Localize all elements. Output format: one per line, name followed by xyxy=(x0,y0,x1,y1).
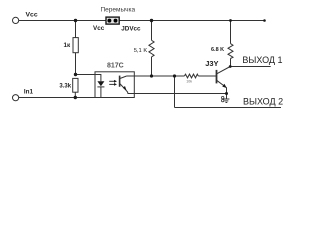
transistor emitter diagonal with arrow xyxy=(217,80,227,87)
wire output 1 xyxy=(230,66,271,68)
junction node B xyxy=(74,73,77,76)
wire 10k to base xyxy=(198,75,216,77)
svg-text:1к: 1к xyxy=(64,42,72,49)
svg-text:3.3k: 3.3k xyxy=(59,83,71,89)
wire node F vertical to bottom rail xyxy=(174,76,176,108)
jumper pin dot 1 xyxy=(107,18,112,23)
wire 1k bottom lead xyxy=(75,53,77,75)
svg-text:Vcc: Vcc xyxy=(26,12,38,19)
svg-text:ВЫХОД 2: ВЫХОД 2 xyxy=(243,96,283,106)
jumper block xyxy=(106,17,119,24)
svg-text:817C: 817C xyxy=(107,63,124,70)
phototransistor base bar xyxy=(119,76,121,87)
wire top rail Vcc xyxy=(19,20,265,22)
wire emitter to ground xyxy=(226,87,228,98)
wire In1 xyxy=(19,97,95,99)
LED cathode lead to box bottom xyxy=(100,87,102,98)
resistor R1 1k body xyxy=(73,38,78,53)
svg-text:10k: 10k xyxy=(186,80,192,84)
svg-text:ВЫХОД 1: ВЫХОД 1 xyxy=(242,55,282,65)
connector circles xyxy=(222,96,224,98)
svg-text:6.8 K: 6.8 K xyxy=(211,47,224,53)
light arrow 2 xyxy=(109,83,114,85)
LED cathode bar xyxy=(97,86,104,88)
terminal In1 circle xyxy=(13,95,19,101)
svg-text:Vcc: Vcc xyxy=(93,25,105,32)
junction node C xyxy=(74,96,77,99)
wire 3.3k bottom lead xyxy=(74,92,76,97)
junction node F xyxy=(173,74,176,77)
wire optocoupler emitter to transistor emitter xyxy=(128,93,227,95)
junction node A xyxy=(74,19,77,22)
junction emitter node xyxy=(225,92,228,95)
light arrow 1 xyxy=(109,80,114,82)
resistor R2 3.3k body xyxy=(73,78,78,92)
resistor R4 10k zigzag xyxy=(184,74,198,78)
phototransistor emitter diagonal xyxy=(120,83,127,90)
wire 1k top lead xyxy=(75,21,77,38)
wire node B to optocoupler anode xyxy=(76,74,96,76)
transistor collector diagonal xyxy=(217,67,231,74)
terminal Vcc circle xyxy=(13,17,19,23)
resistor R5 6.8K leads and zigzag xyxy=(230,21,232,44)
phototransistor collector diagonal xyxy=(120,76,127,79)
transistor Q1 base bar xyxy=(216,70,218,84)
junction node D xyxy=(150,19,153,22)
svg-text:J3Y: J3Y xyxy=(205,59,218,68)
resistor R3 5.1K leads and zigzag xyxy=(151,21,153,41)
svg-text:In1: In1 xyxy=(24,89,34,96)
junction node H top rail 6.8K xyxy=(229,19,232,22)
optocoupler U1 817C box xyxy=(95,72,134,98)
wire emitter elbow xyxy=(126,90,128,93)
junction node G xyxy=(229,65,232,68)
svg-text:JDVcc: JDVcc xyxy=(121,25,141,32)
ground symbol xyxy=(223,98,229,100)
LED anode lead inside optocoupler xyxy=(95,75,101,82)
wire collector to node E and 10k xyxy=(127,75,185,77)
svg-text:5,1 K: 5,1 K xyxy=(134,48,148,54)
svg-text:Перемычка: Перемычка xyxy=(101,6,136,13)
top rail end dot xyxy=(263,19,266,22)
jumper pin dot 2 xyxy=(113,18,118,23)
LED triangle xyxy=(97,81,104,86)
wire bottom rail VYHOD2 xyxy=(175,107,282,109)
junction node E xyxy=(150,74,153,77)
